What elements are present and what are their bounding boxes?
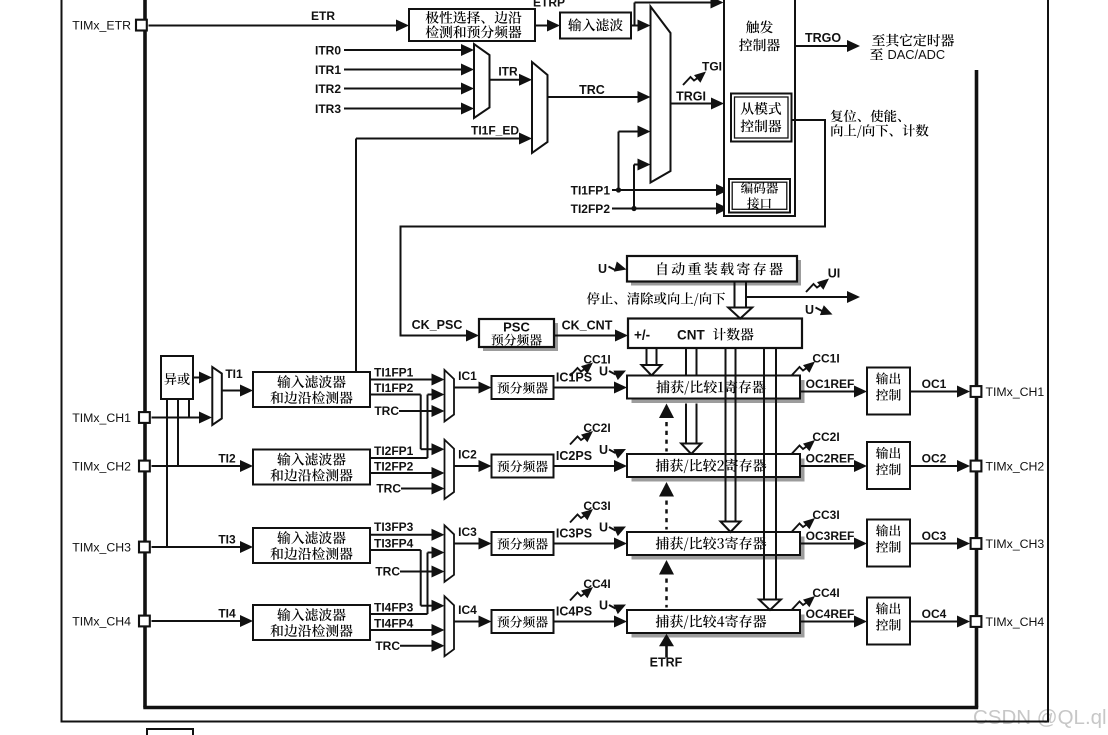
wire OC1REF to output control (800, 386, 867, 398)
block: output control 1 (输出控制) (867, 368, 910, 415)
svg-text:PSC: PSC (503, 320, 530, 335)
label TIMx_CH1 (left) (72, 411, 131, 425)
label TI3FP4 (374, 536, 414, 550)
junction dot TI2FP2 (631, 206, 636, 211)
wire XOR output to TI1 mux (193, 372, 212, 384)
label TI2 (218, 452, 236, 466)
watermark CSDN @QL.ql (973, 706, 1107, 729)
wire TI4FP3 (up to IC3 mux) (370, 547, 445, 615)
wire IC1PS to capture register (554, 382, 628, 394)
svg-text:U: U (599, 365, 608, 379)
svg-text:TI2FP1: TI2FP1 (374, 444, 414, 458)
mux: IC2 selector (445, 440, 455, 499)
wire ITR mux to TRC mux (490, 74, 533, 86)
label TI4 (218, 607, 236, 621)
label CC2I (right) (812, 430, 839, 444)
svg-text:TI3: TI3 (218, 533, 236, 547)
block: CH2 input filter & edge detector (输入滤波器和边沿检测器) (253, 450, 370, 485)
wire TIMx_CH1 pin to TI1 mux (152, 412, 213, 424)
block: polarity selection edge detector prescaler (极性选择、边沿 检测和预分频器) (409, 9, 535, 41)
interrupt arrow TGI (683, 72, 706, 86)
svg-text:ETRP: ETRP (533, 0, 565, 10)
pin TIMx_CH2 (output) (971, 461, 982, 472)
label CC2I (left) (583, 421, 610, 435)
svg-text:TI2FP2: TI2FP2 (571, 202, 611, 216)
svg-text:TI4FP3: TI4FP3 (374, 601, 414, 615)
block: IC1 prescaler (预分频器) (492, 376, 554, 399)
thick right pin bus (975, 70, 979, 708)
text: stop clear up/down (停止、清除或向上/向下) (587, 292, 725, 306)
svg-text:TRC: TRC (376, 482, 401, 496)
svg-text:OC4: OC4 (922, 607, 947, 621)
wire TI1FP1 into IC1 mux (370, 374, 445, 386)
event symbol U (capture 4) (599, 599, 626, 614)
wire OC2REF to output control (800, 460, 867, 472)
svg-text:CC1I: CC1I (812, 352, 839, 366)
wire OC2 to pin (910, 460, 970, 472)
svg-text:TI4FP4: TI4FP4 (374, 616, 414, 630)
block: auto-reload register (自动重装载寄存器) (627, 256, 801, 286)
arrow ETRF into register 2 bottom (659, 482, 674, 497)
block: capture/compare 3 register (捕获/比较3寄存器) (627, 532, 805, 560)
pin TIMx_CH3 (input) (139, 542, 150, 553)
label CC1I (right) (812, 352, 839, 366)
block: slave mode controller (从模式控制器) (731, 94, 792, 142)
block: IC3 prescaler (预分频器) (492, 532, 554, 555)
label TI3 (218, 533, 236, 547)
block: CH1 input filter & edge detector (输入滤波器和边沿检测器) (253, 372, 370, 407)
svg-text:TRC: TRC (375, 565, 400, 579)
block: encoder interface (编码器接口) (729, 179, 790, 213)
wire TRGO out (795, 40, 860, 52)
label TRC (row4) (375, 639, 400, 653)
svg-text:TIMx_CH2: TIMx_CH2 (986, 460, 1045, 474)
svg-text:TI2: TI2 (218, 452, 236, 466)
pin TIMx_CH3 (output) (971, 538, 982, 549)
label ITR0 (315, 43, 341, 57)
svg-text:OC2: OC2 (922, 452, 947, 466)
label IC1 (458, 369, 477, 383)
label TRC (row3) (375, 565, 400, 579)
wire TI2FP2 into IC2 mux (370, 467, 445, 479)
svg-text:CNT: CNT (677, 328, 705, 343)
label TI1F_ED (471, 124, 519, 138)
pin TIMx_CH2 (input) (139, 461, 150, 472)
label ETRF (650, 655, 683, 669)
svg-text:ITR2: ITR2 (315, 82, 341, 96)
wire TRGI into trigger controller (671, 98, 725, 110)
pin TIMx_CH1 (input) (139, 412, 150, 423)
svg-text:TGI: TGI (702, 60, 722, 74)
wire IC3PS to capture register (554, 538, 628, 550)
label TRGO (805, 31, 841, 45)
thick bottom bus wire (143, 706, 978, 710)
hollow arrow: CNT to capture/compare 2 (lower segment) (681, 404, 701, 455)
svg-text:TI3FP4: TI3FP4 (374, 536, 414, 550)
hollow arrow: CNT to capture/compare 4 (passes over registers) (759, 348, 781, 610)
label TIMx_CH2 (left) (72, 460, 131, 474)
svg-text:TIMx_CH2: TIMx_CH2 (72, 460, 131, 474)
svg-text:TIMx_CH3: TIMx_CH3 (72, 541, 131, 555)
label TRC (row2) (376, 482, 401, 496)
interrupt arrow CC1I (left) (570, 363, 593, 377)
pin TIMx_CH4 (input) (139, 616, 150, 627)
wire TI2FP2 riser into trigger mux (634, 159, 651, 209)
arrow ETRF into register 3 bottom (659, 560, 674, 575)
wire TI3FP4 (down to IC4 mux) (370, 550, 445, 612)
wire ETR from pin to polarity box (149, 20, 410, 32)
label TI4FP4 (374, 616, 414, 630)
block: capture/compare 1 register (捕获/比较1寄存器) (627, 376, 805, 404)
pin TIMx_ETR (136, 20, 147, 31)
label TIMx_CH4 (left) (72, 615, 131, 629)
svg-text:OC2REF: OC2REF (806, 452, 855, 466)
svg-text:IC3: IC3 (458, 525, 477, 539)
event symbol U (capture 3) (599, 521, 626, 536)
svg-text:CK_CNT: CK_CNT (562, 319, 613, 333)
svg-text:IC4: IC4 (458, 603, 477, 617)
label TGI (702, 60, 722, 74)
svg-text:TRC: TRC (374, 404, 399, 418)
hollow arrow: CNT to capture/compare 2 (upper segment) (686, 348, 697, 376)
svg-text:TI2FP2: TI2FP2 (374, 459, 414, 473)
event symbol U (under update line) (805, 303, 833, 317)
svg-text:TIMx_CH1: TIMx_CH1 (72, 411, 131, 425)
interrupt arrow CC3I (right) (792, 518, 815, 532)
svg-text:ETR: ETR (311, 9, 335, 23)
label IC2 (458, 448, 477, 462)
block: trigger controller (触发控制器) (724, 0, 795, 216)
label CC1I (left) (583, 353, 610, 367)
wire TI4 from pin to filter (152, 615, 254, 627)
mux: trigger selector (TRGI source) (651, 7, 671, 183)
label OC2REF (806, 452, 855, 466)
label OC3REF (806, 529, 855, 543)
block: output control 4 (输出控制) (867, 598, 910, 645)
mux: IC1 selector (445, 370, 455, 422)
wire ETRF dashed segment 3 (665, 579, 668, 608)
label TIMx_CH4 (right) (986, 615, 1045, 629)
label OC4REF (806, 607, 855, 621)
svg-text:UI: UI (828, 267, 841, 281)
label TI1FP1 (374, 366, 414, 380)
interrupt arrow UI (806, 279, 829, 293)
wire IC4PS to capture register (554, 616, 628, 628)
svg-text:ITR3: ITR3 (315, 102, 341, 116)
block: output control 2 (输出控制) (867, 442, 910, 489)
block: PSC prescaler (PSC 预分频器) (479, 319, 558, 351)
interrupt arrow CC4I (left) (570, 587, 593, 601)
text: up/down count (向上/向下、计数) (831, 124, 928, 138)
label IC3PS (556, 527, 592, 541)
interrupt arrow CC4I (right) (792, 596, 815, 610)
wire IC2 mux to prescaler (454, 460, 492, 472)
label IC3 (458, 525, 477, 539)
svg-text:+/-: +/- (634, 328, 650, 343)
mux: ITR0-3 selector (474, 44, 490, 118)
label OC1REF (806, 377, 855, 391)
hollow arrow: ARR to CNT (728, 282, 752, 319)
block: CH4 input filter & edge detector (输入滤波器和边沿检测器) (253, 605, 370, 640)
wire XOR risers from channel pins (167, 399, 189, 547)
arrow ETRF into register 4 bottom (659, 634, 674, 658)
label CC4I (left) (583, 577, 610, 591)
svg-text:TI1F_ED: TI1F_ED (471, 124, 519, 138)
label TI1FP1 (trigger input) (571, 184, 611, 198)
svg-text:OC1: OC1 (922, 377, 947, 391)
label ETR (311, 9, 335, 23)
svg-text:TI1FP2: TI1FP2 (374, 381, 414, 395)
svg-text:TIMx_CH3: TIMx_CH3 (986, 537, 1045, 551)
svg-text:TRGI: TRGI (676, 90, 706, 104)
block: IC4 prescaler (预分频器) (492, 610, 554, 633)
wire TI1 into CH1 filter (222, 385, 253, 397)
svg-text:IC1: IC1 (458, 369, 477, 383)
svg-text:U: U (599, 521, 608, 535)
event symbol U (capture 2) (599, 443, 626, 458)
label TRGI (676, 90, 706, 104)
wire IC4 mux to prescaler (454, 616, 492, 628)
wire TI2FP1 (up to IC1 mux) (370, 389, 445, 459)
wire TRC into IC2 mux (401, 483, 445, 495)
block: output control 3 (输出控制) (867, 520, 910, 567)
mux: IC3 selector (445, 525, 455, 582)
svg-text:TI1FP1: TI1FP1 (571, 184, 611, 198)
svg-text:OC3REF: OC3REF (806, 529, 855, 543)
svg-text:TIMx_CH4: TIMx_CH4 (986, 615, 1045, 629)
wire U update event out (right) (746, 291, 860, 303)
wire ITR3 into mux (344, 103, 474, 115)
interrupt arrow CC3I (left) (570, 509, 593, 523)
label CC4I (right) (812, 586, 839, 600)
wire TI2 from pin to filter (152, 460, 254, 472)
wire TRC into IC1 mux (399, 405, 445, 417)
label TI1 (225, 367, 243, 381)
label ITR3 (315, 102, 341, 116)
svg-text:U: U (598, 262, 607, 276)
label TI4FP3 (374, 601, 414, 615)
svg-text:DAC/ADC: DAC/ADC (888, 47, 946, 62)
svg-text:U: U (805, 303, 814, 317)
mux: IC4 selector (445, 596, 455, 656)
label CC3I (right) (812, 508, 839, 522)
block: IC2 prescaler (预分频器) (492, 455, 554, 478)
interrupt arrow CC1I (right) (792, 362, 815, 376)
wire OC4 to pin (910, 616, 970, 628)
wire OC3 to pin (910, 538, 970, 550)
pin TIMx_CH1 (output) (971, 386, 982, 397)
interrupt arrow CC2I (left) (570, 431, 593, 445)
label OC1 (922, 377, 947, 391)
label OC2 (922, 452, 947, 466)
block: CH3 input filter & edge detector (输入滤波器和边沿检测器) (253, 528, 370, 563)
junction dot TI1FP1 (616, 187, 621, 192)
wire ETRF dashed segment 2 (665, 501, 668, 530)
text: to DAC/ADC (至 DAC/ADC) (870, 47, 945, 62)
svg-text:TRGO: TRGO (805, 31, 841, 45)
label TRC (row1) (374, 404, 399, 418)
label UI (828, 267, 841, 281)
label TRC (top) (579, 83, 605, 97)
block: XOR (异或) (161, 356, 193, 399)
label TI2FP1 (374, 444, 414, 458)
svg-text:IC3PS: IC3PS (556, 527, 592, 541)
label TI3FP3 (374, 520, 414, 534)
label TI2FP2 (trigger input) (571, 202, 611, 216)
svg-text:ITR1: ITR1 (315, 63, 341, 77)
label ITR (498, 65, 518, 79)
block: CNT counter (+/- CNT 计数器) (628, 319, 802, 349)
svg-text:OC1REF: OC1REF (806, 377, 855, 391)
svg-text:IC2: IC2 (458, 448, 477, 462)
label IC1PS (556, 371, 592, 385)
wire ETRF: filter to trigger mux and up to trigger controller (631, 0, 724, 32)
hollow arrow: CNT to capture/compare 1 (642, 348, 662, 376)
svg-text:TIMx_CH1: TIMx_CH1 (986, 385, 1045, 399)
interrupt arrow CC2I (right) (792, 440, 815, 454)
label TIMx_CH3 (left) (72, 541, 131, 555)
wire TI1FP2 (down to IC2 mux) (370, 395, 445, 456)
wire TI2FP2 to encoder interface (612, 203, 729, 215)
event symbol U (auto-reload write) (598, 262, 627, 277)
thick left pin bus (143, 0, 147, 708)
svg-text:OC3: OC3 (922, 529, 947, 543)
svg-text:U: U (599, 443, 608, 457)
svg-text:TI1FP1: TI1FP1 (374, 366, 414, 380)
wire ETRF dashed segment 1 (665, 422, 668, 452)
svg-text:CC2I: CC2I (812, 430, 839, 444)
wire OC3REF to output control (800, 538, 867, 550)
wire TI4FP4 into IC4 mux (370, 624, 445, 636)
wire slave controller control path to PSC (401, 120, 826, 342)
label IC2PS (556, 449, 592, 463)
svg-text:CK_PSC: CK_PSC (412, 318, 463, 332)
svg-text:TRC: TRC (579, 83, 605, 97)
label CK_CNT (562, 319, 613, 333)
label TI2FP2 (374, 459, 414, 473)
wire IC3 mux to prescaler (454, 538, 492, 550)
wire IC2PS to capture register (554, 460, 628, 472)
svg-text:ITR0: ITR0 (315, 43, 341, 57)
label ITR2 (315, 82, 341, 96)
svg-text:IC2PS: IC2PS (556, 449, 592, 463)
wire TRC into IC4 mux (400, 640, 445, 652)
mux: TRC selector (ITR / TI1F_ED) (532, 62, 548, 153)
svg-text:TI1: TI1 (225, 367, 243, 381)
label TIMx_ETR (72, 19, 131, 33)
wire IC1 mux to prescaler (454, 382, 492, 394)
arrow ETRF into register 1 bottom (659, 404, 674, 419)
label TIMx_CH2 (right) (986, 460, 1045, 474)
svg-text:ETRF: ETRF (650, 655, 683, 669)
wire ETRP to input filter (535, 20, 560, 32)
label TIMx_CH1 (right) (986, 385, 1045, 399)
wire ITR2 into mux (344, 83, 474, 95)
text: reset enable (复位、使能、) (831, 110, 901, 123)
svg-text:TIMx_ETR: TIMx_ETR (72, 19, 131, 33)
pin TIMx_CH4 (output) (971, 616, 982, 627)
block: input filter (输入滤波) (560, 13, 631, 39)
svg-text:CSDN @QL.ql: CSDN @QL.ql (973, 706, 1107, 729)
label TI1FP2 (374, 381, 414, 395)
svg-text:TRC: TRC (375, 639, 400, 653)
block: capture/compare 4 register (捕获/比较4寄存器) (627, 610, 805, 638)
label ETRP (533, 0, 565, 10)
wire TI1F_ED from CH1 filter box up into TRC mux (356, 133, 532, 373)
svg-text:CC3I: CC3I (812, 508, 839, 522)
wire OC4REF to output control (800, 616, 867, 628)
svg-text:U: U (599, 599, 608, 613)
legend box (cut off at bottom) (147, 729, 193, 735)
wire TI3 from pin to filter (152, 541, 254, 553)
hollow arrow: CNT to capture/compare 3 (passes over registers) (721, 348, 741, 532)
label CK_PSC (412, 318, 463, 332)
svg-text:OC4REF: OC4REF (806, 607, 855, 621)
wire TI1FP1 riser into trigger mux (619, 126, 651, 191)
svg-text:TIMx_CH4: TIMx_CH4 (72, 615, 131, 629)
svg-text:TI3FP3: TI3FP3 (374, 520, 414, 534)
text: to other timers (至其它定时器) (872, 34, 954, 47)
label OC4 (922, 607, 947, 621)
block: capture/compare 2 register (捕获/比较2寄存器) (627, 454, 805, 482)
svg-text:ITR: ITR (498, 65, 518, 79)
wire TRC into IC3 mux (400, 566, 445, 578)
wire TI1FP1 to encoder interface (612, 184, 729, 196)
label IC4PS (556, 605, 592, 619)
wire ITR0 into mux (344, 44, 474, 56)
svg-text:CC4I: CC4I (812, 586, 839, 600)
label ITR1 (315, 63, 341, 77)
wire CK_CNT (554, 330, 628, 342)
svg-text:TI4: TI4 (218, 607, 236, 621)
mux: TI1 source selector (212, 367, 222, 425)
wire TI3FP3 into IC3 mux (370, 529, 445, 541)
svg-text:IC4PS: IC4PS (556, 605, 592, 619)
event symbol U (capture 1) (599, 365, 626, 380)
label CC3I (left) (583, 499, 610, 513)
label OC3 (922, 529, 947, 543)
label TIMx_CH3 (right) (986, 537, 1045, 551)
wire ITR1 into mux (344, 64, 474, 76)
label IC4 (458, 603, 477, 617)
wire OC1 to pin (910, 386, 970, 398)
wire TRC to trigger mux (548, 91, 651, 103)
